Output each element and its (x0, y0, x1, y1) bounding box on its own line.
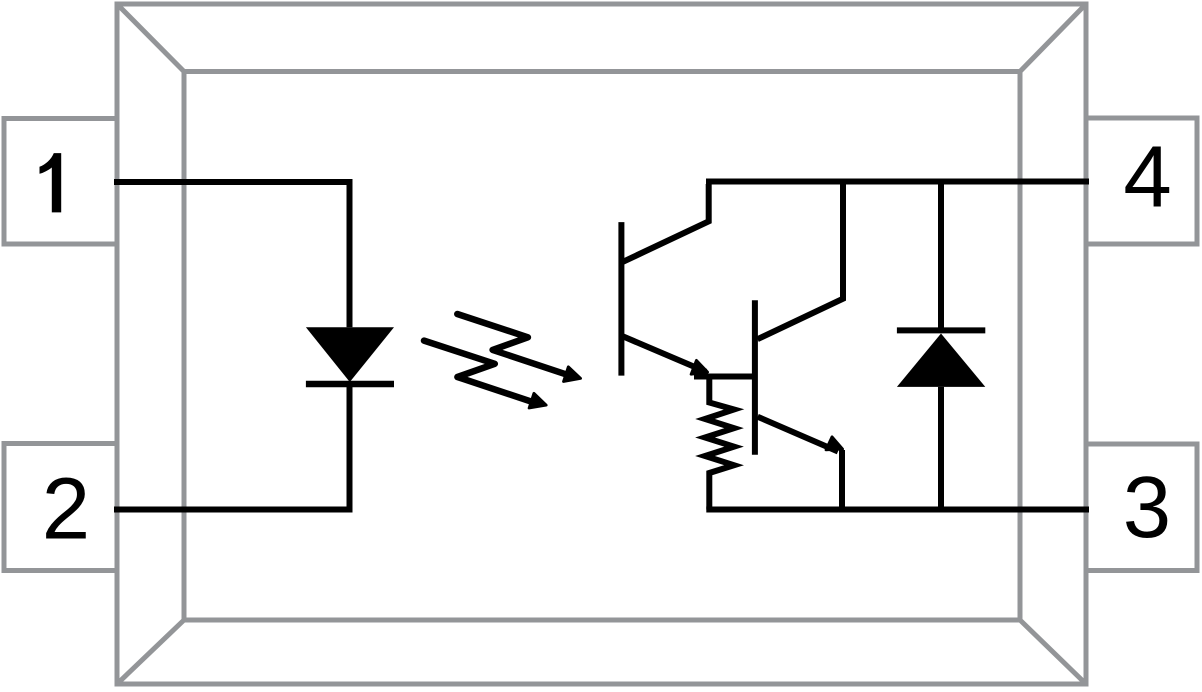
Q2 emitter vertical to bottom rail (839, 450, 845, 510)
Q1 emitter lead (623, 336, 706, 371)
package outer outline (117, 4, 1086, 684)
package inner outline (184, 72, 1020, 621)
package bevel diagonal bottom-right (1020, 620, 1086, 684)
wire pin1 to LED anode (114, 182, 350, 327)
svg-text:3: 3 (1123, 459, 1171, 556)
Q2 emitter arrowhead (826, 437, 843, 450)
svg-text:2: 2 (42, 461, 90, 558)
node: Q1 emitter to Q2 base link (694, 374, 757, 380)
wire LED cathode to pin2 (114, 387, 350, 510)
LED D1 cathode bar (306, 381, 394, 388)
resistor R1 (base-emitter) (705, 377, 734, 510)
light arrow upper (457, 314, 580, 382)
diode D2 cathode wire (bottom) (938, 387, 944, 510)
transistor Q2 base bar (752, 300, 758, 455)
Q2 collector lead (758, 184, 844, 339)
pin 1 box (4, 119, 117, 245)
package bevel diagonal bottom-left (117, 620, 184, 684)
light arrow lower (424, 341, 546, 408)
svg-text:4: 4 (1123, 128, 1171, 225)
transistor Q1 base bar (618, 222, 624, 376)
package bevel diagonal top-right (1020, 4, 1086, 72)
pin 4 box (1086, 118, 1197, 244)
diode D2 anode wire (top) (938, 182, 944, 331)
pin 1 label (40, 153, 62, 212)
top rail (pin4 to Q1 collector) (706, 179, 1089, 185)
package bevel diagonal top-left (117, 4, 184, 72)
Q2 emitter lead (758, 417, 838, 452)
LED D1 triangle (anode, pointing down) (306, 327, 394, 382)
diode D2 triangle (pointing up) (897, 334, 985, 387)
diode D2 cathode bar (897, 327, 985, 333)
Q1 collector lead (623, 184, 709, 262)
pin 3 box (1086, 444, 1197, 571)
pin 2 box (4, 444, 117, 571)
bottom rail (resistor to pin3) (706, 507, 1089, 513)
Q1 emitter arrowhead (691, 360, 708, 374)
